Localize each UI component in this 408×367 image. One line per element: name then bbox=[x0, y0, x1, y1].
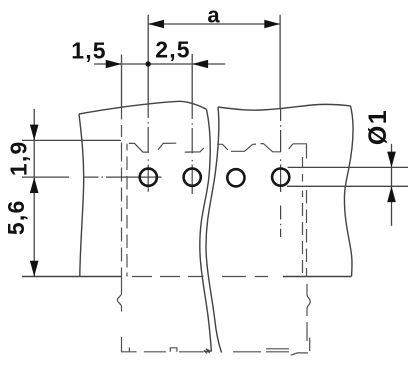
svg-text:a: a bbox=[207, 3, 220, 28]
arrowhead 1,5 (points right, tip at x=121.5) bbox=[106, 60, 122, 69]
arrowhead 5,6 top (points up, tip y=177.2) bbox=[30, 177, 39, 193]
extension line x=192.2 (top) bbox=[191, 54, 193, 106]
leg right bottom tick bbox=[309, 338, 311, 351]
break line zigzag bottom bbox=[204, 349, 212, 354]
hole 4 bbox=[272, 169, 289, 186]
svg-text:1,9: 1,9 bbox=[6, 141, 32, 177]
extension line hole1 / node x=148 bbox=[147, 15, 149, 105]
break line left (right edge of left block) bbox=[200, 109, 212, 351]
hole 3 bbox=[227, 169, 244, 186]
origin dot at x=148.2 bbox=[146, 61, 151, 66]
hidden wall x=121.5 bbox=[121, 108, 123, 277]
hole4 centre line vertical bbox=[280, 108, 282, 237]
hole1 centre line vertical (dash-dot) bbox=[147, 104, 149, 191]
centre line y=177.1 solid start bbox=[22, 176, 69, 178]
bottom edge hidden (dashed) bbox=[132, 276, 268, 278]
funnel contour right block bbox=[217, 144, 293, 152]
hidden wall x=127 bbox=[126, 144, 128, 277]
bottom edge right solid bbox=[283, 276, 352, 278]
arrowhead a left bbox=[148, 20, 164, 29]
funnel contour left block bbox=[129, 143, 204, 152]
hole 1 bbox=[140, 169, 157, 186]
left block left edge bbox=[79, 114, 84, 277]
left block top edge bbox=[79, 101, 207, 114]
hidden wall corner x=306.5 bbox=[293, 144, 307, 159]
arrowhead 5,6 bottom (points down, tip y=276.5) bbox=[30, 261, 39, 277]
left vertical dimension line bbox=[33, 109, 35, 277]
bottom edge / extension line y=276.5 (left solid) bbox=[22, 276, 122, 278]
centre line y=177.1 dash-dot bbox=[84, 176, 162, 178]
right block right edge bbox=[344, 106, 353, 277]
extension line hole4 top / node x=280 bbox=[279, 15, 281, 109]
hole2 centre line vertical bbox=[191, 106, 193, 194]
arrowhead diameter top (points down, tip y=167.4) bbox=[387, 152, 396, 168]
leg right bottom chamfer dash bbox=[291, 353, 308, 355]
arrowhead 2,5 (points left, tip at x=192.3) bbox=[192, 60, 208, 69]
arrowhead diameter bottom (points up, tip y=186.3) bbox=[387, 186, 396, 202]
leg right lower dash bbox=[306, 322, 308, 341]
dimension line 1,5 / 2,5 bbox=[94, 63, 225, 65]
svg-text:Ø1: Ø1 bbox=[364, 109, 392, 145]
right block top edge bbox=[218, 104, 351, 110]
diameter dimension line vertical x=391.5 bbox=[391, 144, 393, 226]
diameter extension line bottom y=186.3 bbox=[287, 185, 408, 187]
extension line x=121.5 (top) bbox=[121, 55, 123, 108]
leg outline left x=121.5 below bbox=[117, 277, 121, 312]
diameter extension line top y=167.4 bbox=[288, 166, 408, 168]
dimension line a bbox=[148, 23, 280, 25]
break line right (left edge of right block) bbox=[206, 107, 222, 353]
hidden wall x=302.5 bbox=[302, 157, 304, 273]
leg left lower dash + corner bbox=[122, 337, 137, 352]
bottom hidden line y=351.8 bbox=[129, 348, 289, 352]
svg-text:5,6: 5,6 bbox=[3, 200, 29, 236]
arrowhead a right bbox=[264, 20, 280, 29]
leg outline right x=307 below bbox=[307, 284, 310, 316]
hidden wall x=306.5 vertical dashes bbox=[306, 190, 308, 277]
svg-text:2,5: 2,5 bbox=[155, 37, 191, 63]
arrowhead 1,9 top (points down, tip y=140.4) bbox=[30, 125, 39, 141]
svg-text:1,5: 1,5 bbox=[71, 38, 107, 64]
extension line y=140.4 bbox=[22, 139, 121, 141]
hole 2 bbox=[184, 169, 201, 186]
